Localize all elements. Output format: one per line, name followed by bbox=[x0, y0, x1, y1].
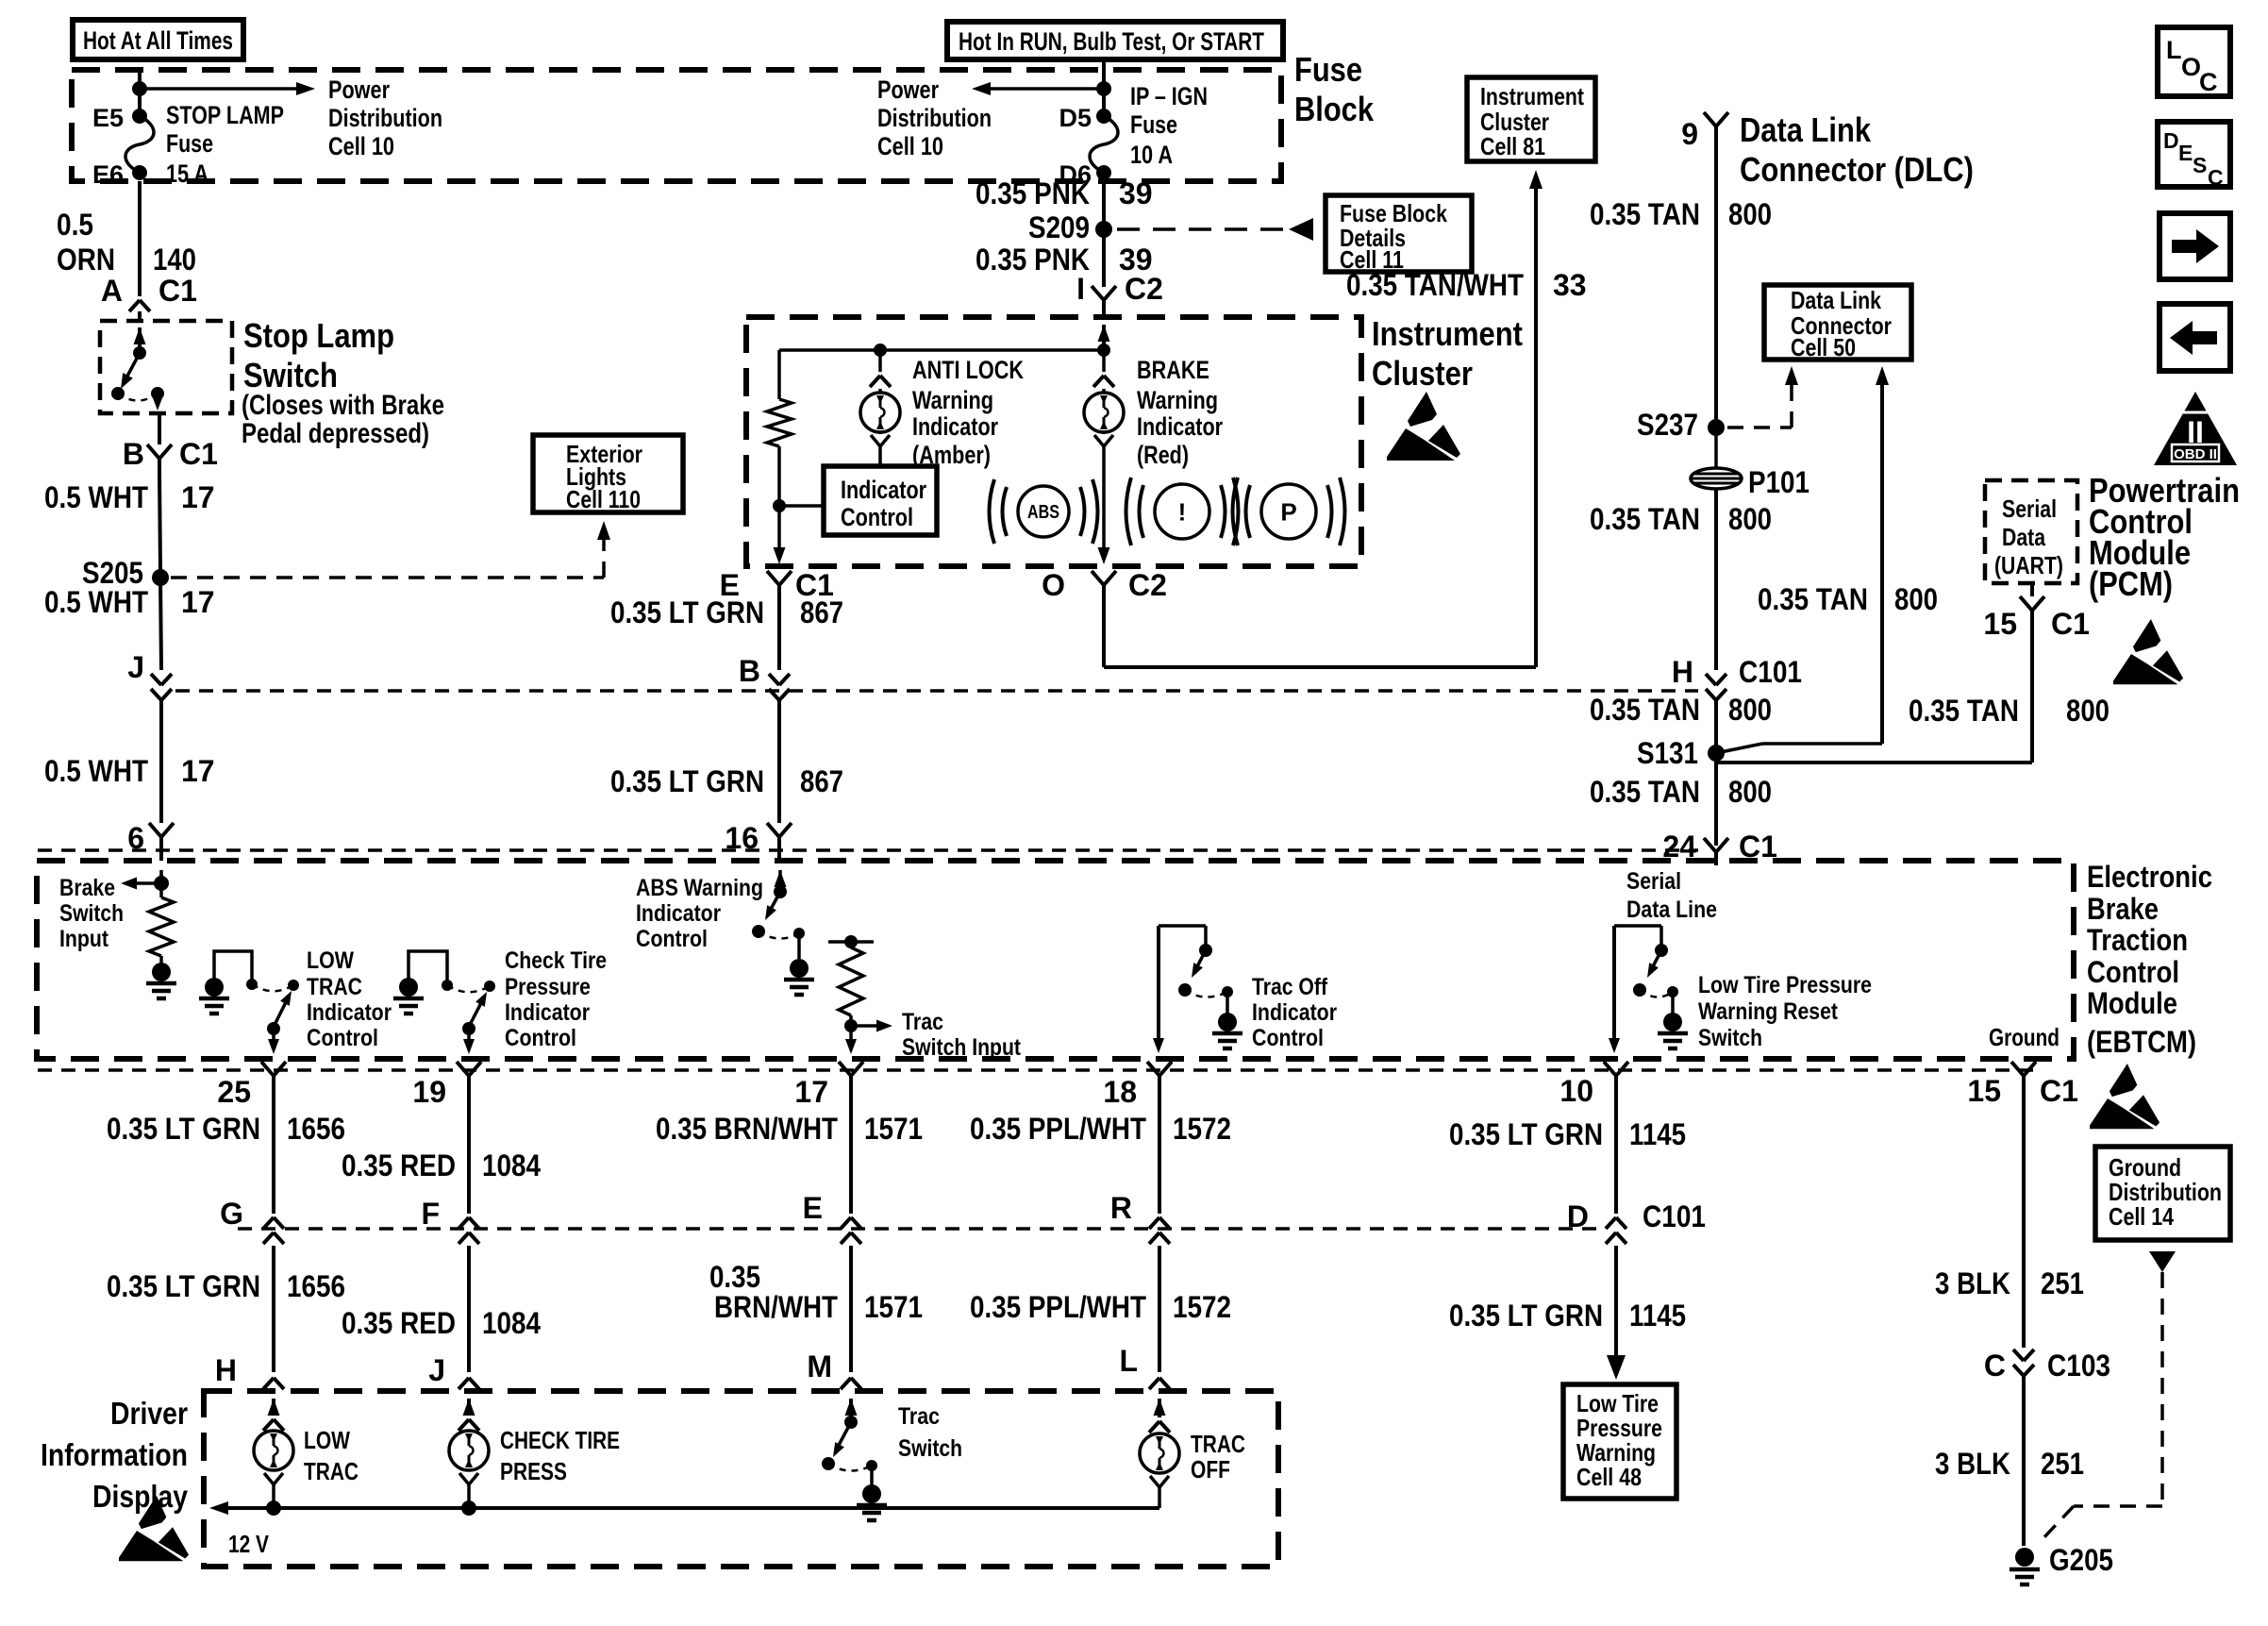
svg-text:(EBTCM): (EBTCM) bbox=[2087, 1025, 2196, 1059]
svg-text:Data Link: Data Link bbox=[1791, 286, 1881, 314]
park brake telltale symbol bbox=[1261, 484, 1316, 539]
resistor indicator control bbox=[767, 399, 792, 446]
dashed reference to fuse block details bbox=[1117, 227, 1289, 231]
svg-text:Check Tire: Check Tire bbox=[505, 947, 607, 974]
svg-text:Indicator: Indicator bbox=[841, 476, 926, 504]
svg-text:L: L bbox=[1119, 1344, 1138, 1378]
ABS telltale symbol bbox=[1018, 486, 1069, 537]
svg-text:IP – IGN: IP – IGN bbox=[1130, 82, 1208, 110]
trac off indicator control switch bbox=[1157, 926, 1160, 1041]
svg-text:BRAKE: BRAKE bbox=[1137, 356, 1209, 384]
svg-text:D: D bbox=[2163, 128, 2179, 153]
svg-text:0.5 WHT: 0.5 WHT bbox=[44, 480, 148, 514]
svg-text:P: P bbox=[1280, 497, 1296, 526]
svg-text:LOW: LOW bbox=[307, 947, 354, 974]
svg-text:9: 9 bbox=[1681, 117, 1698, 151]
svg-text:Warning Reset: Warning Reset bbox=[1698, 998, 1839, 1025]
svg-text:1656: 1656 bbox=[287, 1112, 345, 1146]
svg-text:Power: Power bbox=[328, 75, 390, 104]
trac switch DID bbox=[845, 1399, 858, 1416]
svg-text:0.35 LT GRN: 0.35 LT GRN bbox=[107, 1112, 260, 1146]
svg-text:CHECK TIRE: CHECK TIRE bbox=[500, 1426, 620, 1454]
svg-text:J: J bbox=[428, 1353, 445, 1387]
svg-text:D: D bbox=[1567, 1199, 1589, 1233]
svg-text:12 V: 12 V bbox=[228, 1530, 270, 1558]
svg-text:Cell 10: Cell 10 bbox=[877, 132, 943, 160]
esd symbol PCM bbox=[2113, 619, 2183, 684]
svg-text:!: ! bbox=[1178, 497, 1187, 526]
svg-text:17: 17 bbox=[181, 754, 215, 788]
dashed reference ground distribution bbox=[2149, 1251, 2176, 1272]
svg-text:Switch Input: Switch Input bbox=[902, 1034, 1022, 1061]
svg-text:19: 19 bbox=[412, 1075, 446, 1109]
svg-text:Cell 14: Cell 14 bbox=[2109, 1202, 2174, 1231]
fuse block box bbox=[72, 70, 1281, 181]
svg-text:Power: Power bbox=[877, 75, 939, 104]
svg-text:Serial: Serial bbox=[1626, 868, 1681, 895]
svg-text:Connector (DLC): Connector (DLC) bbox=[1740, 150, 1974, 189]
low trac lamp bbox=[268, 1399, 280, 1416]
trac switch input circuit bbox=[828, 940, 874, 944]
icon OBD II triangle bbox=[2154, 392, 2237, 465]
svg-text:867: 867 bbox=[800, 595, 843, 629]
brake telltale symbol bbox=[1155, 484, 1209, 539]
svg-text:0.35 TAN: 0.35 TAN bbox=[1909, 694, 2019, 728]
svg-text:1145: 1145 bbox=[1629, 1299, 1686, 1333]
svg-text:C: C bbox=[1984, 1349, 2006, 1383]
svg-text:Brake: Brake bbox=[2087, 892, 2159, 926]
svg-text:C: C bbox=[2199, 68, 2218, 96]
svg-text:Low Tire Pressure: Low Tire Pressure bbox=[1698, 972, 1872, 998]
ground G205 bbox=[2015, 1548, 2034, 1567]
harness dashed line upper bbox=[175, 689, 1698, 693]
harness dashed line connector row bbox=[238, 1227, 1599, 1231]
svg-text:S131: S131 bbox=[1637, 736, 1698, 770]
svg-text:10: 10 bbox=[1559, 1074, 1593, 1108]
svg-text:Indicator: Indicator bbox=[307, 999, 392, 1026]
svg-text:C2: C2 bbox=[1125, 272, 1163, 306]
svg-text:B: B bbox=[123, 437, 144, 471]
wire 0.35 TAN 800 below S131 bbox=[1714, 753, 1718, 846]
svg-text:Instrument: Instrument bbox=[1480, 82, 1584, 110]
svg-text:15: 15 bbox=[1967, 1074, 2001, 1108]
EBTCM module box bbox=[37, 861, 2074, 1059]
dashed reference to data link connector cell 50 bbox=[1727, 426, 1792, 429]
svg-text:0.35: 0.35 bbox=[709, 1260, 760, 1294]
svg-text:17: 17 bbox=[181, 480, 215, 514]
svg-text:Brake: Brake bbox=[59, 875, 115, 901]
svg-text:Fuse: Fuse bbox=[166, 129, 213, 158]
exterior lights cell 110 box bbox=[533, 435, 683, 512]
low tire pressure warning cell 48 box bbox=[1563, 1384, 1676, 1499]
svg-text:Control: Control bbox=[636, 926, 708, 952]
svg-text:251: 251 bbox=[2041, 1447, 2084, 1481]
svg-text:Instrument: Instrument bbox=[1372, 314, 1523, 353]
svg-text:C1: C1 bbox=[179, 437, 218, 471]
svg-text:Switch: Switch bbox=[898, 1435, 962, 1462]
splice S209 bbox=[1095, 221, 1112, 238]
svg-text:C: C bbox=[2208, 165, 2224, 190]
svg-text:1571: 1571 bbox=[864, 1290, 923, 1324]
svg-text:0.35 PPL/WHT: 0.35 PPL/WHT bbox=[970, 1290, 1146, 1324]
left branch to resistor bbox=[777, 350, 781, 399]
svg-text:Warning: Warning bbox=[1137, 386, 1218, 414]
svg-text:18: 18 bbox=[1103, 1075, 1137, 1109]
svg-text:17: 17 bbox=[794, 1075, 828, 1109]
svg-text:Fuse: Fuse bbox=[1130, 110, 1177, 139]
svg-text:(PCM): (PCM) bbox=[2089, 564, 2173, 603]
svg-text:S209: S209 bbox=[1028, 210, 1090, 244]
svg-text:Indicator: Indicator bbox=[636, 900, 721, 927]
check tire press lamp bbox=[463, 1399, 475, 1416]
instrument cluster box bbox=[746, 317, 1361, 566]
svg-text:OBD II: OBD II bbox=[2174, 446, 2217, 462]
brake warning indicator lamp bbox=[1102, 350, 1106, 372]
svg-text:25: 25 bbox=[217, 1075, 251, 1109]
svg-text:Switch: Switch bbox=[1698, 1025, 1762, 1051]
svg-text:Distribution: Distribution bbox=[328, 104, 442, 132]
svg-text:0.35 LT GRN: 0.35 LT GRN bbox=[610, 764, 764, 798]
svg-text:1656: 1656 bbox=[287, 1269, 345, 1303]
svg-text:TRAC: TRAC bbox=[1191, 1430, 1245, 1458]
svg-text:0.35 LT GRN: 0.35 LT GRN bbox=[610, 595, 764, 629]
svg-text:Cell 10: Cell 10 bbox=[328, 132, 394, 160]
svg-text:800: 800 bbox=[1728, 197, 1772, 231]
splice S237 bbox=[1708, 419, 1725, 436]
svg-text:ABS Warning: ABS Warning bbox=[636, 875, 763, 901]
svg-text:Driver: Driver bbox=[110, 1396, 188, 1431]
svg-text:Switch: Switch bbox=[59, 900, 124, 927]
svg-text:PRESS: PRESS bbox=[500, 1457, 567, 1485]
wire stop lamp fuse feed bbox=[138, 70, 142, 116]
svg-text:B: B bbox=[739, 654, 760, 688]
svg-text:ANTI LOCK: ANTI LOCK bbox=[912, 356, 1024, 384]
svg-text:0.35 PPL/WHT: 0.35 PPL/WHT bbox=[970, 1112, 1146, 1146]
svg-text:Traction: Traction bbox=[2087, 923, 2188, 957]
svg-text:STOP LAMP: STOP LAMP bbox=[166, 101, 284, 129]
svg-text:Module: Module bbox=[2087, 986, 2177, 1020]
svg-text:867: 867 bbox=[800, 764, 843, 798]
branch S131 to cell 50 arrow bbox=[1716, 744, 1762, 753]
svg-text:Cluster: Cluster bbox=[1372, 354, 1473, 393]
svg-text:0.35 LT GRN: 0.35 LT GRN bbox=[1449, 1117, 1603, 1151]
grommet P101 bbox=[1714, 436, 1718, 468]
12V feed line bbox=[225, 1506, 1159, 1510]
svg-text:(Closes with Brake: (Closes with Brake bbox=[242, 390, 444, 421]
svg-text:0.35 TAN: 0.35 TAN bbox=[1590, 197, 1700, 231]
svg-text:Data: Data bbox=[2002, 523, 2045, 551]
svg-text:Trac Off: Trac Off bbox=[1252, 974, 1328, 1000]
svg-text:0.35 LT GRN: 0.35 LT GRN bbox=[107, 1269, 260, 1303]
serial data UART box bbox=[1985, 480, 2077, 583]
svg-text:P101: P101 bbox=[1748, 465, 1809, 499]
node junction to power distribution left arrow bbox=[1096, 81, 1111, 96]
svg-text:ABS: ABS bbox=[1027, 502, 1059, 523]
svg-text:Switch: Switch bbox=[243, 356, 338, 394]
brake switch input circuit bbox=[156, 870, 168, 887]
svg-text:0.35 TAN: 0.35 TAN bbox=[1590, 693, 1700, 727]
instrument cluster cell 81 box bbox=[1467, 77, 1595, 161]
wire 0.35 PNK 39 upper bbox=[1102, 181, 1106, 287]
svg-text:A: A bbox=[101, 274, 123, 308]
svg-text:0.5 WHT: 0.5 WHT bbox=[44, 585, 148, 619]
harness dashed line below EBTCM bbox=[38, 1068, 2038, 1072]
svg-text:3 BLK: 3 BLK bbox=[1935, 1447, 2010, 1481]
wire 0.5 WHT 17 middle bbox=[160, 578, 161, 670]
svg-text:Stop Lamp: Stop Lamp bbox=[243, 316, 394, 355]
title box Hot In RUN Bulb Test Or START bbox=[947, 22, 1283, 59]
svg-text:C1: C1 bbox=[2051, 607, 2090, 641]
svg-text:0.5 WHT: 0.5 WHT bbox=[44, 754, 148, 788]
svg-text:251: 251 bbox=[2041, 1266, 2084, 1300]
svg-text:Control: Control bbox=[2087, 955, 2179, 989]
svg-text:800: 800 bbox=[1728, 693, 1772, 727]
svg-text:Input: Input bbox=[59, 926, 109, 952]
svg-text:E6: E6 bbox=[92, 160, 124, 189]
svg-text:0.35 RED: 0.35 RED bbox=[342, 1148, 456, 1182]
bus junction node bbox=[1097, 344, 1110, 357]
svg-text:Electronic: Electronic bbox=[2087, 860, 2212, 894]
dashed reference to exterior lights bbox=[171, 576, 604, 579]
svg-text:Distribution: Distribution bbox=[877, 104, 992, 132]
svg-text:Data Link: Data Link bbox=[1740, 110, 1872, 149]
indicator control box bbox=[824, 466, 937, 535]
svg-text:Control: Control bbox=[841, 503, 913, 531]
svg-text:0.35 BRN/WHT: 0.35 BRN/WHT bbox=[656, 1112, 838, 1146]
svg-text:H: H bbox=[215, 1353, 237, 1387]
esd symbol EBTCM bbox=[2090, 1064, 2160, 1129]
svg-text:S237: S237 bbox=[1637, 408, 1698, 442]
svg-text:800: 800 bbox=[2066, 694, 2110, 728]
svg-text:0.5: 0.5 bbox=[57, 208, 93, 242]
svg-text:Pressure: Pressure bbox=[505, 974, 591, 1000]
svg-text:Fuse: Fuse bbox=[1294, 50, 1362, 89]
icon DESC box bbox=[2158, 122, 2230, 187]
harness dashed line above EBTCM bbox=[38, 848, 1698, 852]
svg-text:(UART): (UART) bbox=[1994, 551, 2063, 579]
svg-text:Indicator: Indicator bbox=[1252, 999, 1337, 1026]
svg-text:H: H bbox=[1672, 655, 1693, 689]
svg-text:Control: Control bbox=[307, 1025, 378, 1051]
resistor brake switch input bbox=[149, 897, 174, 956]
svg-text:C2: C2 bbox=[1128, 568, 1167, 602]
svg-text:0.35 PNK: 0.35 PNK bbox=[976, 176, 1090, 210]
wire brake warning to cell 81 bbox=[1104, 665, 1536, 669]
fuse IP-IGN 10A bbox=[1096, 109, 1111, 124]
svg-text:Pedal depressed): Pedal depressed) bbox=[242, 418, 429, 449]
svg-text:Display: Display bbox=[92, 1479, 189, 1514]
trac off lamp bbox=[1154, 1399, 1166, 1416]
svg-text:C101: C101 bbox=[1739, 655, 1802, 689]
wire entry ignition into cluster bbox=[1098, 325, 1110, 342]
svg-text:Indicator: Indicator bbox=[912, 412, 998, 441]
svg-text:Data Line: Data Line bbox=[1626, 897, 1717, 923]
svg-text:D5: D5 bbox=[1059, 104, 1092, 132]
wire ignition feed bbox=[1102, 59, 1106, 116]
svg-text:G205: G205 bbox=[2049, 1543, 2113, 1577]
svg-text:Hot In RUN, Bulb Test, Or STAR: Hot In RUN, Bulb Test, Or START bbox=[959, 27, 1264, 56]
svg-text:Block: Block bbox=[1294, 90, 1375, 128]
svg-text:OFF: OFF bbox=[1191, 1455, 1230, 1484]
svg-text:10 A: 10 A bbox=[1130, 141, 1173, 169]
svg-text:C101: C101 bbox=[1643, 1199, 1706, 1233]
splice S131 bbox=[1708, 745, 1725, 762]
esd symbol DID bbox=[119, 1496, 189, 1561]
svg-text:1145: 1145 bbox=[1629, 1117, 1686, 1151]
svg-text:BRN/WHT: BRN/WHT bbox=[714, 1290, 838, 1324]
svg-text:Serial: Serial bbox=[2002, 495, 2057, 523]
stop lamp switch bbox=[100, 321, 232, 413]
svg-text:O: O bbox=[1042, 568, 1065, 602]
svg-text:Control: Control bbox=[505, 1025, 576, 1051]
svg-text:E: E bbox=[2178, 141, 2193, 165]
low tire pressure warning reset switch bbox=[1612, 926, 1616, 1041]
svg-text:140: 140 bbox=[153, 243, 196, 277]
data link connector cell 50 box bbox=[1764, 285, 1911, 360]
svg-text:Indicator: Indicator bbox=[1137, 412, 1223, 441]
svg-text:15: 15 bbox=[1983, 607, 2017, 641]
svg-text:0.35 TAN: 0.35 TAN bbox=[1590, 502, 1700, 536]
abs warning indicator control switch bbox=[775, 870, 787, 887]
svg-text:1084: 1084 bbox=[482, 1148, 541, 1182]
svg-text:E5: E5 bbox=[92, 104, 124, 132]
svg-text:G: G bbox=[220, 1197, 243, 1231]
svg-text:Trac: Trac bbox=[902, 1009, 943, 1035]
low trac indicator control switch bbox=[214, 951, 252, 981]
icon arrow right box bbox=[2160, 213, 2230, 279]
svg-text:Cell 110: Cell 110 bbox=[566, 485, 641, 513]
splice S205 bbox=[152, 569, 169, 586]
svg-text:ORN: ORN bbox=[57, 243, 115, 277]
arrow to low tire pressure warning cell 48 bbox=[1614, 1246, 1618, 1364]
svg-text:0.35 RED: 0.35 RED bbox=[342, 1306, 456, 1340]
svg-text:S: S bbox=[2193, 153, 2207, 177]
svg-text:J: J bbox=[127, 650, 144, 684]
svg-text:3 BLK: 3 BLK bbox=[1935, 1266, 2010, 1300]
svg-text:(Red): (Red) bbox=[1137, 441, 1189, 469]
svg-text:LOW: LOW bbox=[304, 1426, 350, 1454]
svg-text:0.35 LT GRN: 0.35 LT GRN bbox=[1449, 1299, 1603, 1333]
svg-text:15 A: 15 A bbox=[166, 159, 208, 188]
svg-text:Cell 48: Cell 48 bbox=[1576, 1463, 1642, 1491]
node junction to power distribution bbox=[132, 81, 147, 96]
svg-text:Warning: Warning bbox=[912, 386, 993, 414]
svg-text:1572: 1572 bbox=[1173, 1290, 1231, 1324]
fuse block details cell 11 box bbox=[1326, 195, 1472, 272]
svg-text:Hot At All Times: Hot At All Times bbox=[83, 26, 233, 55]
svg-text:0.35 TAN: 0.35 TAN bbox=[1590, 775, 1700, 809]
svg-text:C1: C1 bbox=[2040, 1074, 2078, 1108]
svg-text:E: E bbox=[803, 1191, 823, 1225]
svg-text:Cell 81: Cell 81 bbox=[1480, 132, 1545, 160]
svg-text:800: 800 bbox=[1728, 502, 1772, 536]
svg-text:1572: 1572 bbox=[1173, 1112, 1231, 1146]
svg-text:I: I bbox=[1076, 272, 1085, 306]
svg-text:R: R bbox=[1110, 1191, 1132, 1225]
svg-text:17: 17 bbox=[181, 585, 215, 619]
svg-text:800: 800 bbox=[1728, 775, 1772, 809]
svg-text:Indicator: Indicator bbox=[505, 999, 590, 1026]
svg-text:Trac: Trac bbox=[898, 1403, 940, 1430]
svg-text:39: 39 bbox=[1119, 176, 1153, 210]
svg-text:Information: Information bbox=[41, 1437, 188, 1472]
fuse STOP LAMP 15A bbox=[132, 109, 147, 124]
wire 0.5 WHT 17 upper bbox=[159, 472, 160, 571]
anti lock warning indicator lamp bbox=[878, 350, 882, 372]
svg-text:C1: C1 bbox=[158, 274, 197, 308]
branch S131 to PCM bbox=[1716, 761, 2032, 764]
icon arrow left box bbox=[2160, 304, 2230, 371]
svg-text:0.35 TAN: 0.35 TAN bbox=[1758, 582, 1868, 616]
ground distribution cell 14 box bbox=[2095, 1147, 2230, 1240]
esd symbol instrument cluster bbox=[1387, 392, 1460, 461]
title box Hot At All Times bbox=[73, 20, 243, 59]
check tire pressure indicator control switch bbox=[409, 951, 447, 981]
driver information display box bbox=[204, 1391, 1278, 1567]
svg-text:33: 33 bbox=[1553, 268, 1587, 302]
svg-text:Cell 50: Cell 50 bbox=[1791, 333, 1856, 361]
svg-text:0.35 TAN/WHT: 0.35 TAN/WHT bbox=[1346, 268, 1524, 302]
svg-text:TRAC: TRAC bbox=[307, 974, 362, 1000]
svg-text:Control: Control bbox=[1252, 1025, 1324, 1051]
svg-text:TRAC: TRAC bbox=[304, 1457, 359, 1485]
svg-text:800: 800 bbox=[1894, 582, 1938, 616]
svg-text:L: L bbox=[2166, 36, 2182, 64]
wire 0.5 ORN 140 bbox=[138, 181, 142, 293]
wire indicator control to left branch bbox=[779, 504, 824, 508]
svg-text:Ground: Ground bbox=[1989, 1023, 2060, 1051]
svg-text:1084: 1084 bbox=[482, 1306, 541, 1340]
svg-text:1571: 1571 bbox=[864, 1112, 923, 1146]
icon LOC box bbox=[2158, 27, 2230, 96]
svg-text:C103: C103 bbox=[2047, 1349, 2110, 1383]
svg-text:0.35 PNK: 0.35 PNK bbox=[976, 243, 1090, 277]
svg-text:M: M bbox=[807, 1349, 832, 1383]
svg-text:O: O bbox=[2181, 53, 2201, 81]
svg-text:F: F bbox=[421, 1197, 440, 1231]
